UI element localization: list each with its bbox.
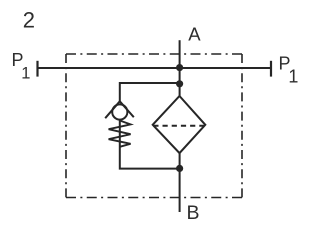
check valve V1 spring [109, 121, 131, 147]
enclosure frame left edge (dash-dot) [65, 54, 67, 198]
svg-text:1: 1 [21, 65, 30, 83]
svg-text:1: 1 [288, 67, 298, 87]
check valve V1 seat [105, 101, 134, 118]
port tick P1 left [36, 61, 38, 77]
enclosure frame top edge (dash-dot) [66, 53, 242, 55]
junction dot at filter bottom [176, 165, 183, 172]
svg-text:B: B [187, 202, 200, 224]
wire A vertical (A down to filter top) [179, 40, 181, 96]
svg-text:2: 2 [23, 7, 35, 32]
wire B vertical (filter bottom down to B) [179, 153, 181, 213]
wire bypass top branch [120, 83, 180, 102]
check valve V1 ball [112, 104, 127, 119]
port tick P1 right [270, 61, 272, 77]
junction dot at filter top [176, 80, 183, 87]
wire P1-P1 horizontal line [38, 67, 272, 69]
enclosure frame bottom edge (dash-dot) [66, 197, 242, 199]
wire bypass bottom branch [120, 121, 180, 169]
junction dot on P1 line [176, 64, 183, 71]
svg-text:A: A [188, 23, 201, 44]
filter F1 element (dashed line) [153, 125, 205, 127]
filter F1 body (diamond) [153, 96, 206, 153]
enclosure frame right edge (dash-dot) [241, 54, 243, 198]
